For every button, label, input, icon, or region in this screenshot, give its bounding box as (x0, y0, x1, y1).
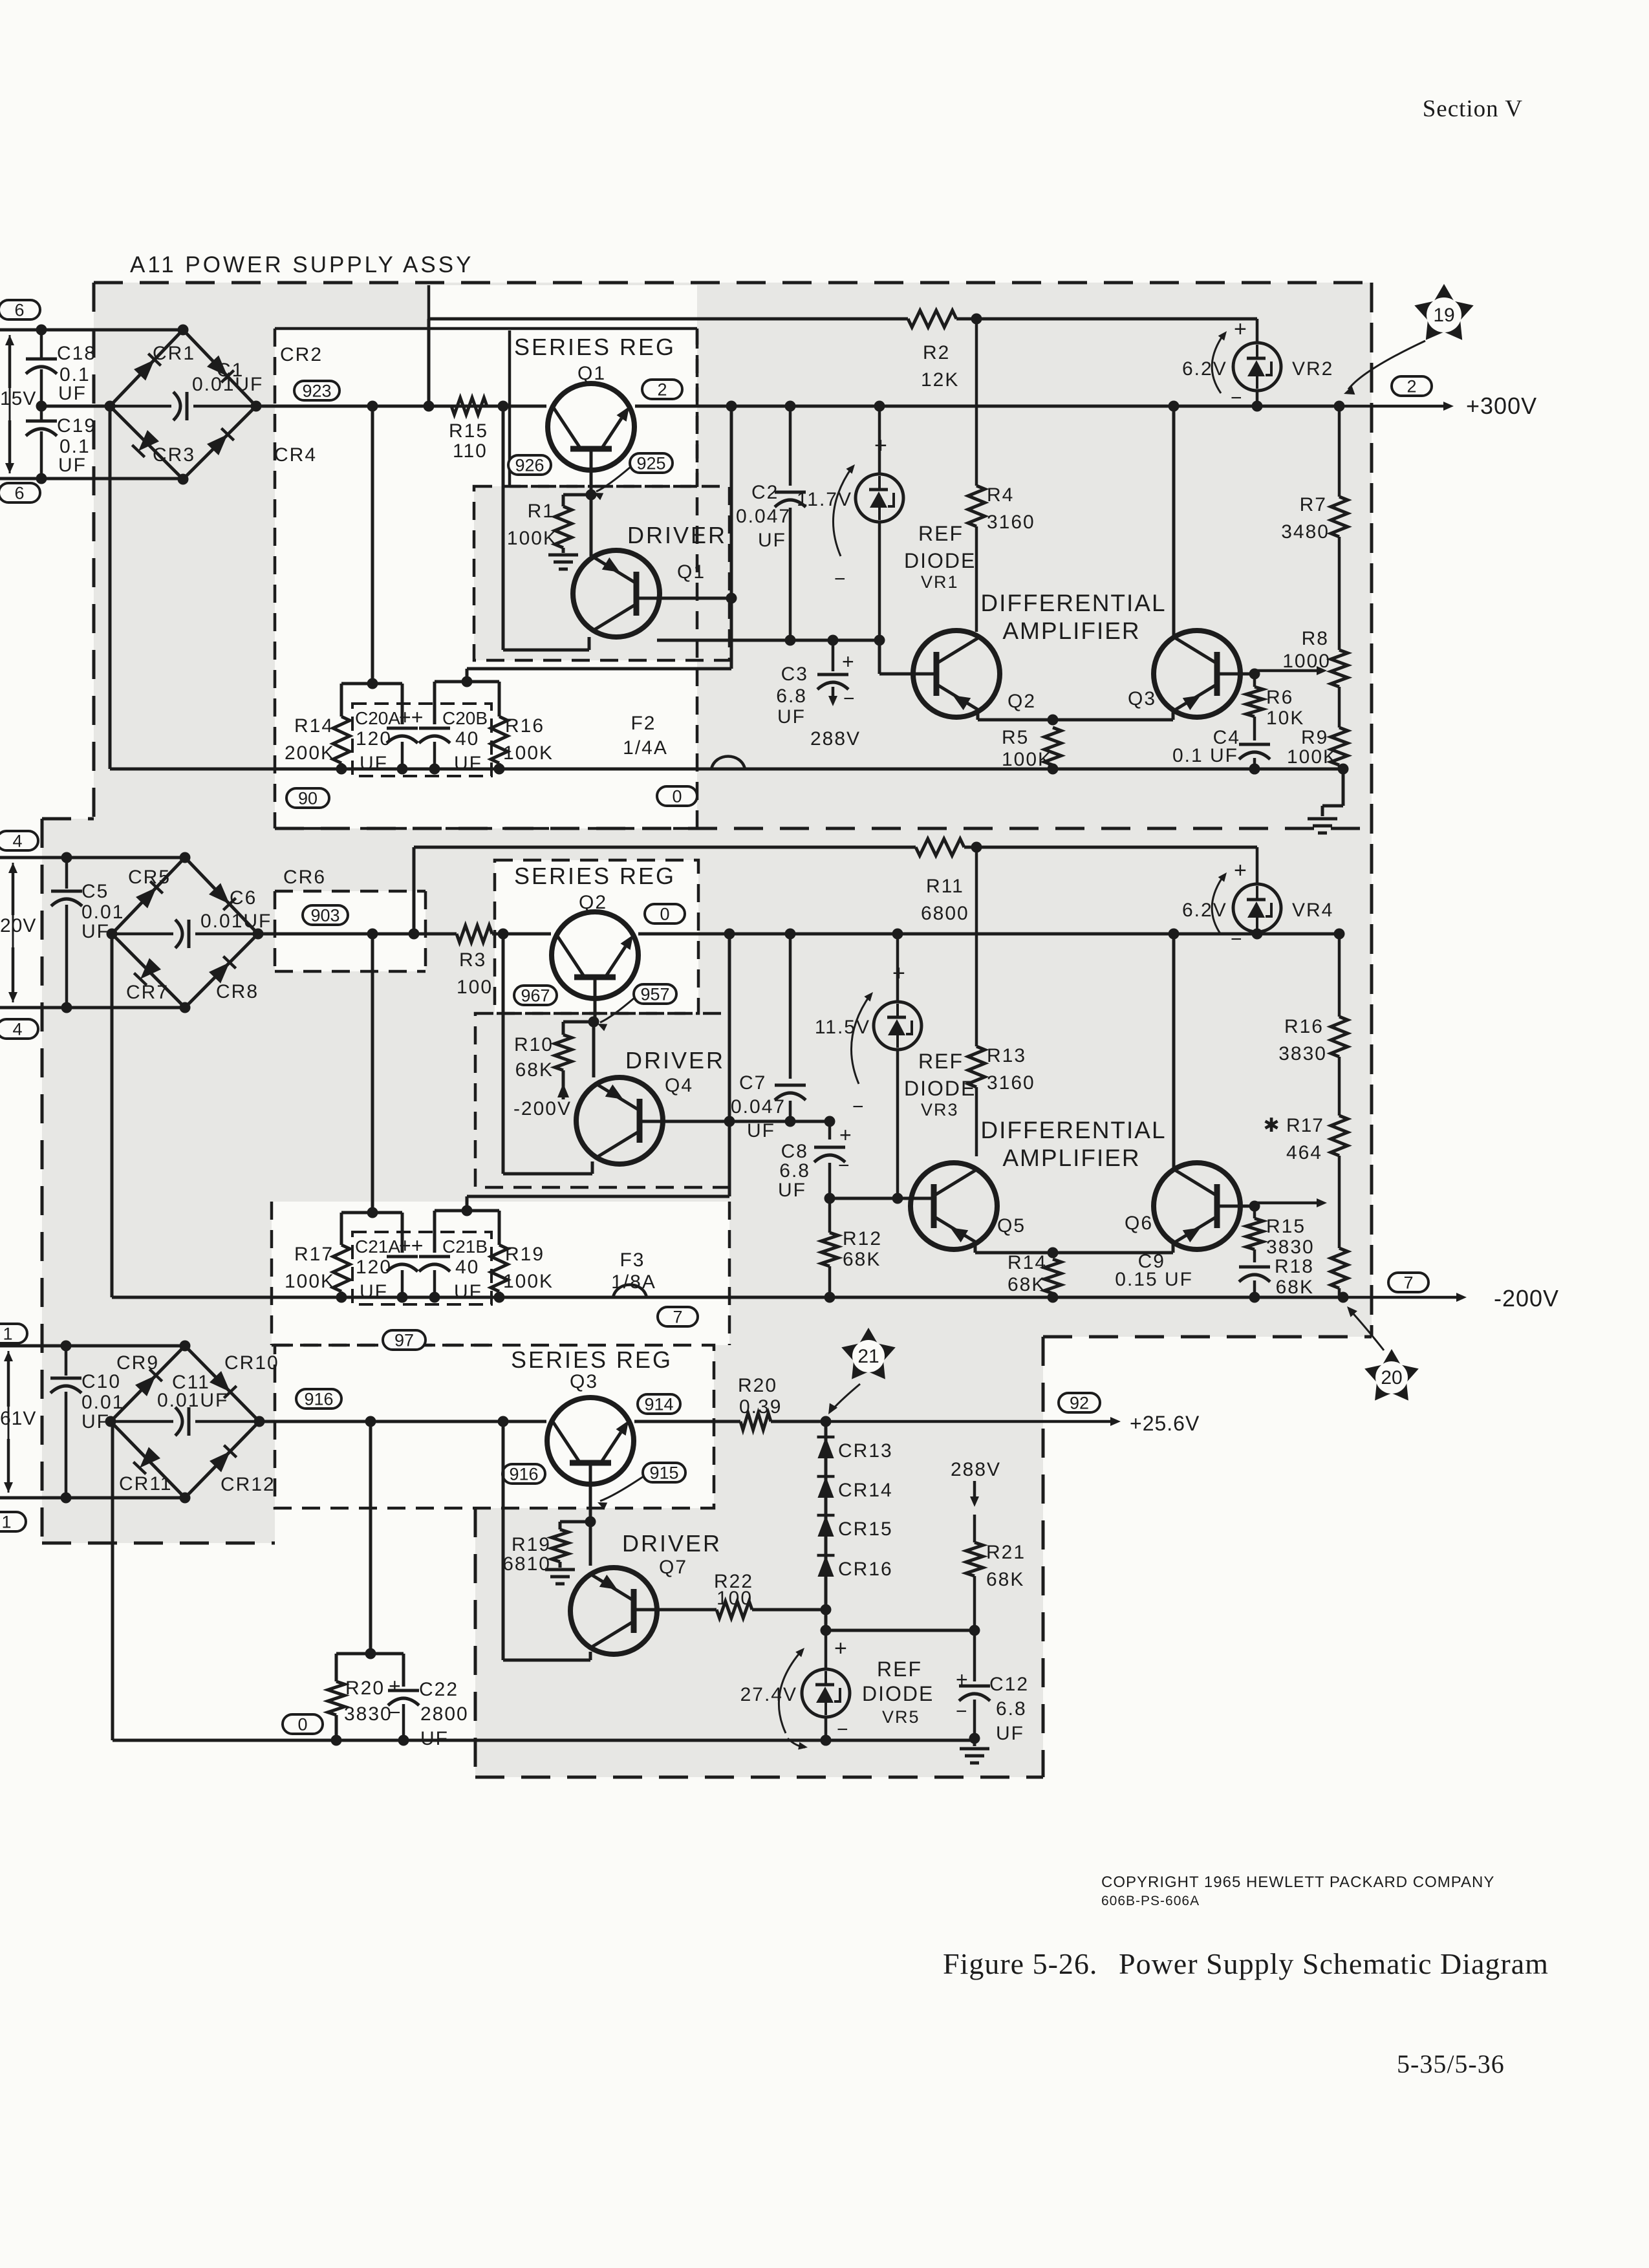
label +25.6V (1130, 1412, 1200, 1435)
node 967 (514, 986, 557, 1006)
svg-text:R19: R19 (505, 1244, 544, 1265)
wiper arrow into R17 (1255, 1198, 1327, 1207)
transistor Q1 driver (573, 550, 660, 637)
svg-text:UF: UF (58, 383, 87, 404)
svg-text:SERIES REG: SERIES REG (514, 334, 676, 360)
svg-text:0.01UF: 0.01UF (157, 1390, 228, 1411)
svg-text:VR4: VR4 (1292, 900, 1333, 921)
svg-text:967: 967 (521, 986, 550, 1006)
wire driver base right (636, 593, 737, 604)
label 11.5V (815, 1017, 870, 1038)
series reg box Q3 border (275, 1345, 714, 1508)
svg-text:DIODE: DIODE (862, 1682, 934, 1705)
capacitor C12 6.8UF (956, 1630, 1029, 1744)
svg-text:12K: 12K (921, 369, 959, 391)
svg-text:21: 21 (857, 1346, 879, 1367)
wire Q6 base right (1217, 1201, 1260, 1212)
svg-text:CR7: CR7 (126, 982, 169, 1003)
svg-text:++: ++ (399, 706, 423, 729)
svg-text:DRIVER: DRIVER (625, 1047, 725, 1074)
copyright text (1101, 1874, 1494, 1908)
resistor R17* 464 (1263, 1115, 1348, 1248)
svg-text:20V: 20V (0, 915, 36, 936)
svg-text:3830: 3830 (344, 1703, 393, 1725)
label CR2 (280, 344, 323, 365)
svg-text:957: 957 (640, 985, 669, 1004)
capacitor C9 0.15UF (1115, 1251, 1270, 1303)
svg-text:61V: 61V (0, 1408, 36, 1429)
arrow from star 19 (1344, 341, 1425, 394)
label DRIVER (Q7) (622, 1530, 722, 1557)
svg-text:CR9: CR9 (116, 1352, 159, 1374)
plus/minus arcs VR4 (1212, 858, 1247, 950)
wire AC top (block1) (0, 325, 183, 336)
svg-text:120: 120 (356, 1257, 392, 1278)
label Q2 (diff) (1008, 691, 1036, 712)
resistor R11 6800 (916, 839, 969, 924)
zener VR4 6.2V (1233, 847, 1281, 934)
svg-text:100K: 100K (503, 1271, 554, 1292)
svg-text:VR2: VR2 (1292, 358, 1333, 380)
capacitor C20B 40UF (419, 708, 488, 774)
svg-text:C2: C2 (751, 482, 779, 503)
driver box Q4 dashed border (475, 1013, 729, 1187)
wire bracket riser right (block2) (467, 934, 729, 1211)
svg-text:AMPLIFIER: AMPLIFIER (1002, 618, 1140, 644)
resistor R20 0.39 (738, 1375, 782, 1430)
label Q3 (570, 1371, 598, 1392)
svg-text:R16: R16 (505, 715, 544, 737)
arrow -200V (R10) (513, 1083, 572, 1119)
label ++ (C21) (399, 1234, 423, 1257)
svg-text:2: 2 (1406, 377, 1416, 396)
connector 1 (bottom, cut) (0, 1512, 26, 1532)
grey assembly shading (42, 283, 1372, 1777)
svg-text:R3: R3 (459, 949, 486, 971)
svg-text:SERIES REG: SERIES REG (514, 863, 676, 889)
label CR5 (128, 867, 171, 888)
bracket R20/C22 (336, 1421, 404, 1687)
svg-text:R8: R8 (1302, 628, 1329, 649)
label DIFFERENTIAL AMPLIFIER (block2) (980, 1117, 1166, 1171)
label 20V + span arrow (0, 863, 36, 1002)
capacitor C5 0.01UF (51, 858, 124, 1008)
node 957 (634, 984, 676, 1004)
resistor R19 6810 (502, 1522, 590, 1575)
star 21 (841, 1328, 896, 1379)
node 92 oval (1059, 1393, 1100, 1413)
svg-text:R15: R15 (1266, 1216, 1306, 1237)
svg-text:R9: R9 (1301, 727, 1328, 748)
wire emitter bus (block1) (657, 635, 885, 646)
svg-text:C20A: C20A (355, 708, 400, 728)
fuse F2 (623, 713, 745, 769)
resistor R9 100K (1287, 727, 1348, 769)
label DRIVER (Q1) (627, 522, 727, 548)
svg-text:CR11: CR11 (119, 1473, 172, 1495)
svg-text:R12: R12 (843, 1228, 882, 1249)
bracket R14/C20A (341, 406, 402, 724)
svg-text:Q1: Q1 (677, 561, 706, 583)
label CR9 (116, 1352, 159, 1374)
capacitor C21B 40UF (419, 1237, 488, 1302)
label 0.01UF (C1) (192, 374, 263, 395)
ground (R19) (545, 1570, 575, 1584)
node 914 oval (638, 1394, 680, 1414)
wire rail to +25.6 arrow (771, 1420, 826, 1423)
resistor R14 68K (block2) (1008, 1252, 1061, 1297)
svg-text:92: 92 (1070, 1394, 1089, 1413)
svg-text:100K: 100K (1287, 746, 1337, 768)
resistor R8 1000 (pot) (1282, 628, 1348, 728)
wire Q3 collector up (1169, 401, 1180, 638)
svg-text:R19: R19 (512, 1534, 551, 1555)
bridge rectifier CR1-CR4 (105, 325, 262, 485)
svg-text:6.8: 6.8 (996, 1698, 1027, 1720)
connector 4 (bottom) (0, 1019, 38, 1039)
label Q5 (diff) (997, 1215, 1026, 1237)
diode CR14 (817, 1476, 893, 1501)
driver sub-box grey (top) (474, 486, 729, 660)
svg-text:C19: C19 (57, 415, 96, 437)
svg-text:926: 926 (515, 456, 544, 475)
svg-text:Q6: Q6 (1125, 1213, 1153, 1234)
svg-text:100K: 100K (507, 528, 557, 549)
label Q1 (driver) (677, 561, 706, 583)
svg-text:6.8: 6.8 (776, 686, 807, 707)
svg-text:6: 6 (14, 301, 24, 320)
wire driver Q7 collector route (503, 1421, 590, 1660)
svg-text:97: 97 (394, 1331, 414, 1350)
wire Q3 base right (1217, 669, 1260, 680)
wire +25.6 rail (259, 1416, 832, 1427)
bridge rectifier CR5-CR8 (107, 852, 264, 1013)
svg-text:10K: 10K (1266, 707, 1304, 729)
figure caption (943, 1947, 1549, 1980)
capacitor C19 (26, 369, 96, 479)
white panel borders (middle bracket + corridor) (272, 891, 729, 1345)
resistor R22 100 (714, 1571, 832, 1618)
svg-text:−: − (956, 1701, 967, 1722)
bracket R17/C21A (341, 934, 402, 1253)
svg-text:464: 464 (1286, 1142, 1322, 1163)
svg-text:UF: UF (758, 530, 786, 551)
label +300V (1466, 393, 1537, 419)
white inner panels (272, 285, 729, 1508)
svg-text:R10: R10 (514, 1034, 554, 1055)
svg-text:Power Supply Schematic Diagram: Power Supply Schematic Diagram (1119, 1947, 1549, 1980)
svg-text:UF: UF (360, 753, 388, 774)
wire driver Q4 collector route (503, 934, 592, 1174)
svg-text:CR4: CR4 (274, 444, 317, 466)
svg-text:3830: 3830 (1266, 1237, 1315, 1258)
svg-text:R14: R14 (294, 715, 334, 737)
svg-text:0: 0 (672, 787, 682, 806)
transistor Q4 driver (576, 1077, 663, 1164)
svg-text:UF: UF (454, 1281, 482, 1302)
resistor R17 100K (bracket) (285, 1244, 350, 1297)
resistor R15 3830 (block2) (1246, 1206, 1315, 1262)
svg-text:DIODE: DIODE (904, 1077, 976, 1100)
transistor Q1 series reg (548, 383, 634, 470)
wiper arrow into R8 (1255, 666, 1327, 675)
resistor R19 100K (bracket) (491, 1244, 554, 1297)
svg-text:Figure 5-26.: Figure 5-26. (943, 1947, 1097, 1980)
capacitor C2 0.047UF (736, 406, 806, 640)
resistor R12 68K (821, 1198, 882, 1297)
capacitor C4 0.1UF (1172, 727, 1270, 775)
svg-text:DIFFERENTIAL: DIFFERENTIAL (980, 590, 1166, 616)
arrow from star 20 (1347, 1306, 1384, 1350)
plus/minus arcs VR2 (1212, 317, 1247, 409)
capacitor C18 (26, 330, 96, 404)
svg-text:68K: 68K (515, 1059, 554, 1081)
svg-text:R11: R11 (926, 876, 964, 897)
assembly dashed boundary (42, 283, 1372, 1777)
svg-text:UF: UF (420, 1728, 449, 1749)
label 15V + span arrow (0, 335, 36, 473)
wire cap midpoint to bridge (36, 401, 111, 412)
svg-text:-200V: -200V (513, 1098, 572, 1119)
label Q7 (driver) (659, 1557, 687, 1578)
svg-text:100K: 100K (503, 742, 554, 764)
label Q4 (driver) (665, 1075, 693, 1096)
svg-text:R5: R5 (1002, 727, 1029, 748)
svg-text:C8: C8 (781, 1141, 808, 1162)
label SERIES REG (Q1) (514, 334, 676, 360)
resistor R21 68K (966, 1515, 1026, 1630)
svg-text:F2: F2 (630, 713, 656, 734)
arrow 957 to base (598, 998, 634, 1031)
svg-text:6.2V: 6.2V (1182, 900, 1227, 921)
wire AC top (block2) (0, 852, 185, 863)
svg-text:REF: REF (877, 1658, 922, 1681)
node 97 (383, 1330, 426, 1350)
svg-text:68K: 68K (986, 1569, 1024, 1590)
svg-text:R13: R13 (987, 1045, 1026, 1066)
wire Q2 emitters bus (978, 710, 1173, 726)
label C11 (172, 1372, 210, 1393)
svg-text:−: − (852, 1096, 864, 1118)
svg-text:5-35/5-36: 5-35/5-36 (1397, 2049, 1505, 2079)
svg-text:3480: 3480 (1281, 521, 1330, 543)
diode CR16 (817, 1555, 893, 1580)
svg-text:6800: 6800 (921, 903, 969, 924)
wire Q3 base (585, 1463, 596, 1566)
label 61V + span arrow (0, 1351, 36, 1493)
transistor Q6 diff amp (1154, 1163, 1240, 1249)
labels R10 68K (514, 1034, 554, 1081)
plus/minus arcs VR1 (833, 433, 887, 590)
svg-text:923: 923 (302, 382, 331, 401)
label Q6 (diff) (1125, 1213, 1153, 1234)
svg-text:Q4: Q4 (665, 1075, 693, 1096)
arrow 288V down (block3) (970, 1481, 979, 1507)
svg-text:916: 916 (509, 1465, 538, 1484)
svg-text:27.4V: 27.4V (740, 1684, 797, 1705)
svg-text:UF: UF (996, 1723, 1024, 1744)
wire +300 rail (257, 401, 1345, 412)
svg-text:20: 20 (1381, 1367, 1402, 1388)
svg-text:19: 19 (1433, 305, 1454, 326)
svg-text:UF: UF (360, 1281, 388, 1302)
svg-text:R20: R20 (738, 1375, 777, 1396)
svg-text:6810: 6810 (502, 1553, 551, 1575)
driver box Q1 dashed border (474, 486, 729, 660)
label SERIES REG (Q3) (511, 1346, 673, 1373)
bracket C21B/R19 (435, 1205, 499, 1253)
zener VR1 11.7V (856, 406, 903, 640)
svg-text:4: 4 (12, 832, 22, 851)
svg-text:C7: C7 (739, 1072, 766, 1094)
svg-text:VR3: VR3 (921, 1100, 959, 1119)
label Q3 (diff) (1128, 688, 1156, 709)
svg-text:Section V: Section V (1423, 96, 1523, 122)
bracket C20B/R16 (435, 676, 499, 725)
svg-text:90: 90 (298, 789, 318, 808)
svg-text:DRIVER: DRIVER (627, 522, 727, 548)
svg-text:+: + (956, 1668, 968, 1691)
svg-text:Q7: Q7 (659, 1557, 687, 1578)
resistor R16 100K (491, 715, 554, 769)
svg-text:R14: R14 (1008, 1252, 1047, 1273)
node 926 (508, 455, 551, 475)
svg-text:−: − (837, 1719, 848, 1740)
page number 5-35/5-36 (1397, 2049, 1505, 2079)
svg-text:7: 7 (1403, 1273, 1413, 1293)
node 903 (303, 905, 348, 925)
label CR7 (126, 982, 169, 1003)
svg-text:R1: R1 (528, 501, 555, 522)
svg-text:0: 0 (297, 1715, 307, 1734)
label VR4 (1292, 900, 1333, 921)
bridge rectifier CR9-CR12 (105, 1341, 265, 1504)
svg-text:100K: 100K (1002, 749, 1052, 770)
svg-text:Q3: Q3 (1128, 688, 1156, 709)
svg-text:0.047: 0.047 (736, 506, 791, 527)
fuse F3 (611, 1249, 656, 1297)
connector 4 (top) (0, 831, 38, 851)
wire -200V output (1343, 1293, 1467, 1302)
node 90 (286, 788, 329, 808)
svg-text:0: 0 (660, 905, 669, 924)
label DRIVER (Q4) (625, 1047, 725, 1074)
wire AC bottom (block1) (0, 473, 183, 484)
node 7 oval (output) (1388, 1273, 1428, 1293)
label CR1 (153, 343, 195, 364)
svg-text:6: 6 (14, 484, 24, 503)
wire VR5 tie to C12 (826, 1625, 980, 1636)
wire -200 rail (block2) (258, 929, 1345, 940)
label CR8 (216, 981, 259, 1002)
svg-text:CR8: CR8 (216, 981, 259, 1002)
resistor R15 110 (449, 398, 488, 462)
title: A11 POWER SUPPLY ASSY (130, 252, 473, 277)
svg-text:C21A: C21A (355, 1237, 400, 1257)
svg-text:−: − (843, 688, 855, 709)
node 916 oval (296, 1389, 341, 1409)
wire Q1 base (586, 449, 597, 556)
resistor R14 200K (285, 715, 350, 769)
zener VR3 11.5V (874, 934, 921, 1198)
resistor R6 10K (1246, 674, 1304, 740)
node 7 (block2 left) (658, 1307, 698, 1327)
transistor Q7 driver (570, 1568, 657, 1654)
svg-text:0.15 UF: 0.15 UF (1115, 1269, 1193, 1290)
label DIFFERENTIAL AMPLIFIER (980, 590, 1166, 644)
svg-text:DIFFERENTIAL: DIFFERENTIAL (980, 1117, 1166, 1143)
svg-text:R7: R7 (1300, 494, 1327, 515)
svg-text:0.01: 0.01 (81, 902, 124, 923)
resistor R16 3830 (block2) (1278, 934, 1348, 1116)
label REF DIODE VR5 (862, 1658, 934, 1727)
svg-text:UF: UF (81, 921, 110, 942)
svg-text:+: + (389, 1674, 401, 1698)
svg-text:DRIVER: DRIVER (622, 1530, 722, 1557)
zener VR5 27.4V (802, 1630, 850, 1746)
label Q1 (577, 363, 606, 384)
resistor R5 100K (1002, 727, 1061, 770)
svg-text:3160: 3160 (987, 1072, 1035, 1094)
svg-text:68K: 68K (1276, 1277, 1314, 1298)
resistor R13 3160 (968, 847, 1035, 1156)
svg-text:+25.6V: +25.6V (1130, 1412, 1200, 1435)
label CR4 (274, 444, 317, 466)
svg-text:VR1: VR1 (921, 572, 959, 592)
svg-text:0.047: 0.047 (731, 1096, 786, 1118)
svg-text:-200V: -200V (1494, 1285, 1559, 1312)
svg-text:4: 4 (12, 1020, 22, 1039)
svg-text:0.01UF: 0.01UF (192, 374, 263, 395)
label REF DIODE VR3 (904, 1050, 976, 1119)
svg-text:2: 2 (657, 380, 667, 400)
svg-text:914: 914 (644, 1395, 673, 1414)
ground hook (block2) (0, 0, 1, 1)
svg-text:100: 100 (717, 1588, 753, 1609)
resistor R20 3830 (328, 1678, 393, 1740)
svg-text:CR12: CR12 (221, 1474, 275, 1495)
svg-text:100: 100 (457, 977, 493, 998)
svg-text:916: 916 (304, 1390, 333, 1409)
svg-text:915: 915 (649, 1463, 678, 1483)
transistor Q2 series reg (552, 912, 638, 999)
capacitor C10 0.01UF (50, 1346, 124, 1498)
svg-text:0.39: 0.39 (739, 1396, 782, 1418)
node 0 oval (Q2) (645, 904, 685, 924)
svg-text:3160: 3160 (987, 512, 1035, 533)
label 6.2V (VR2) (1182, 358, 1227, 380)
node 0 oval (block3) (283, 1714, 323, 1734)
wire AC bottom (block2) (0, 1002, 184, 1013)
svg-text:1/4A: 1/4A (623, 737, 668, 759)
svg-text:CR15: CR15 (838, 1518, 893, 1540)
resistor R4 3160 (968, 319, 1035, 632)
plus/minus arcs VR3 (851, 961, 905, 1118)
label CR3 (153, 444, 195, 466)
connector 1 (top, cut) (0, 1324, 27, 1344)
connector 6 (bottom) (0, 483, 40, 503)
svg-text:CR10: CR10 (224, 1352, 279, 1374)
svg-text:0.01: 0.01 (81, 1392, 124, 1413)
connector 6 (top) (0, 300, 40, 320)
wire VR1 to Q2 base (879, 640, 937, 674)
svg-text:11.5V: 11.5V (815, 1017, 870, 1038)
node 0 (block1) (657, 786, 697, 806)
svg-text:✱ R17: ✱ R17 (1263, 1115, 1324, 1136)
svg-text:CR16: CR16 (838, 1559, 893, 1580)
svg-text:R21: R21 (986, 1542, 1026, 1563)
label 288V (block3) (951, 1459, 1001, 1480)
